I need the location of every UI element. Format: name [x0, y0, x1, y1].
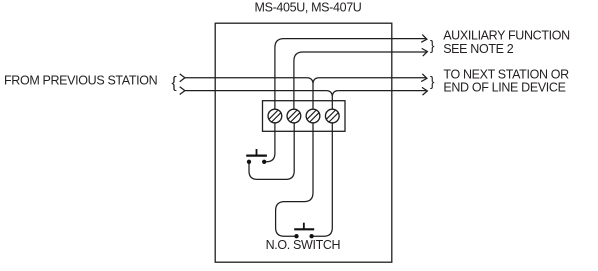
svg-text:}: } [430, 37, 435, 53]
svg-text:AUXILIARY FUNCTION: AUXILIARY FUNCTION [443, 29, 570, 43]
svg-text:TO NEXT STATION OR: TO NEXT STATION OR [443, 67, 569, 81]
svg-text:MS-405U, MS-407U: MS-405U, MS-407U [255, 0, 362, 14]
svg-text:{: { [171, 75, 177, 92]
svg-text:END OF LINE DEVICE: END OF LINE DEVICE [443, 81, 565, 95]
svg-text:FROM PREVIOUS STATION: FROM PREVIOUS STATION [4, 74, 158, 88]
svg-text:}: } [430, 73, 435, 89]
svg-text:SEE NOTE 2: SEE NOTE 2 [443, 42, 514, 56]
svg-text:N.O. SWITCH: N.O. SWITCH [266, 238, 341, 252]
